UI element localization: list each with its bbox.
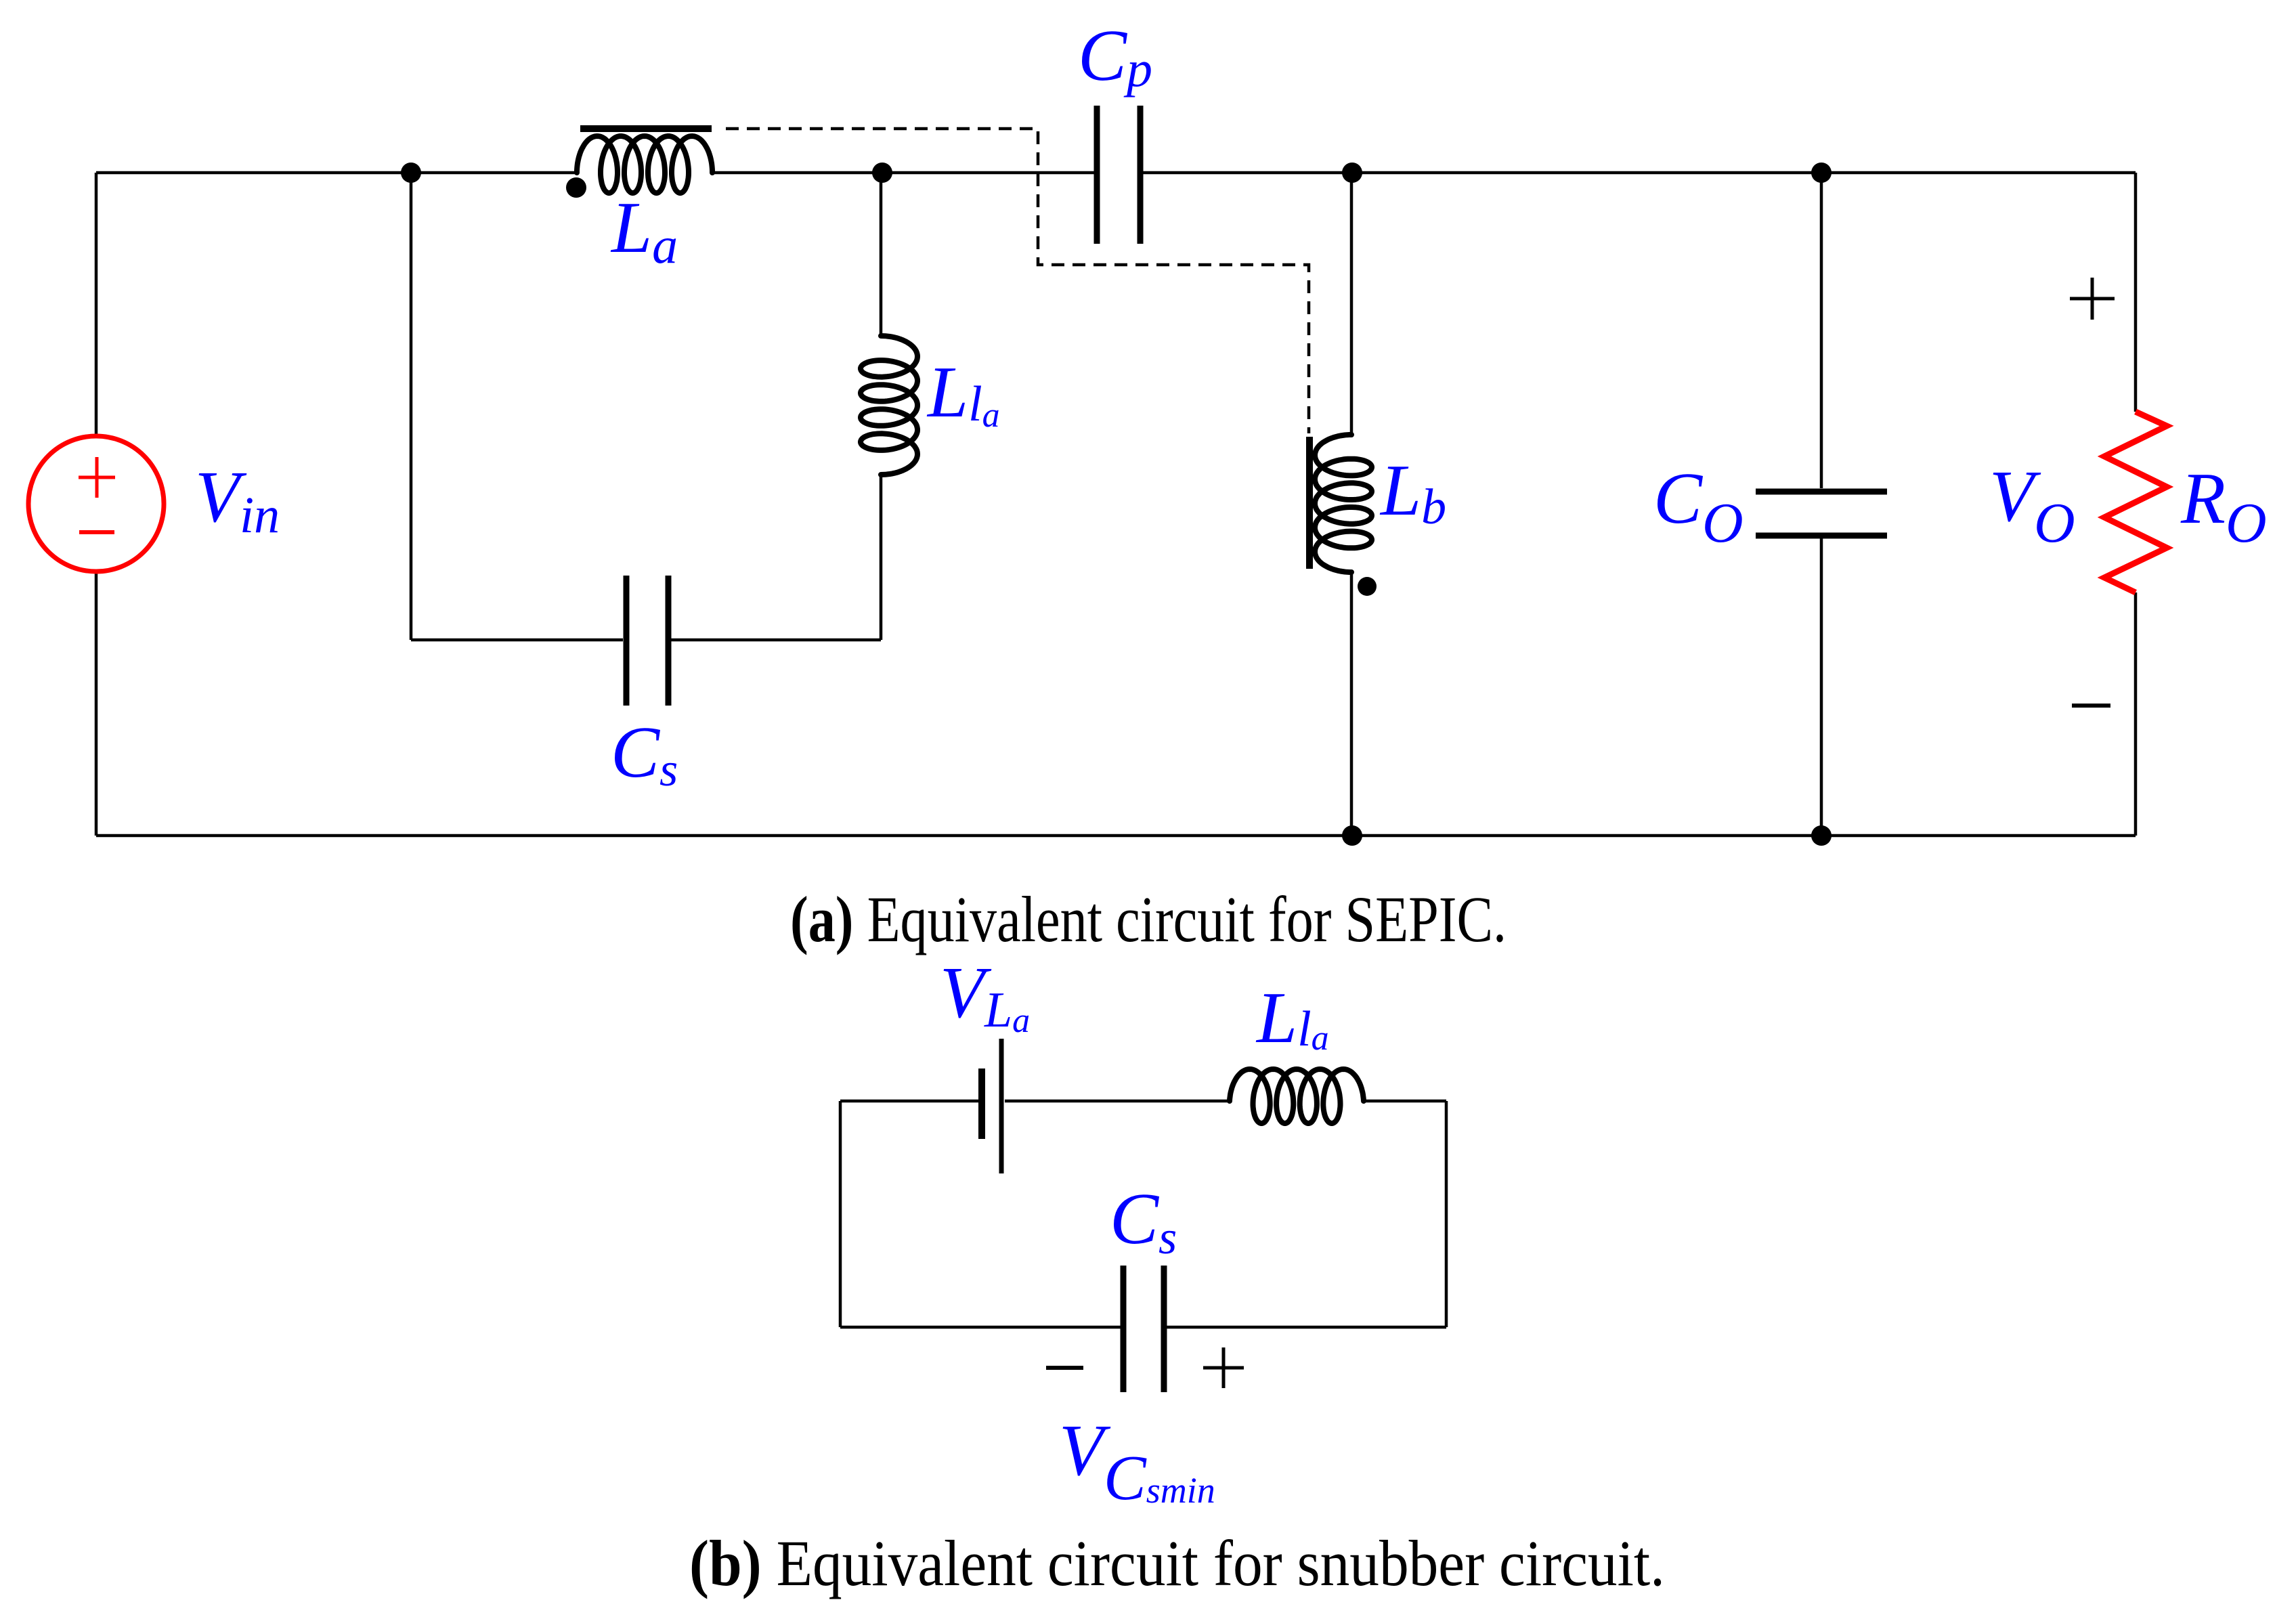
svg-text:Lb: Lb bbox=[1379, 450, 1446, 535]
svg-text:La: La bbox=[610, 188, 678, 274]
svg-text:(b) Equivalent circuit for snu: (b) Equivalent circuit for snubber circu… bbox=[689, 1527, 1665, 1599]
svg-text:RO: RO bbox=[2180, 458, 2267, 555]
svg-text:VCsmin: VCsmin bbox=[1059, 1410, 1215, 1513]
svg-text:VLa: VLa bbox=[940, 953, 1030, 1040]
svg-text:VO: VO bbox=[1989, 456, 2075, 555]
svg-text:(a) Equivalent circuit for SEP: (a) Equivalent circuit for SEPIC. bbox=[790, 883, 1507, 955]
svg-text:Cs: Cs bbox=[1110, 1179, 1177, 1264]
svg-text:Lla: Lla bbox=[926, 352, 1000, 435]
svg-text:Cs: Cs bbox=[611, 712, 678, 796]
svg-text:CO: CO bbox=[1653, 458, 1743, 555]
svg-text:Lla: Lla bbox=[1255, 978, 1329, 1058]
svg-text:Vin: Vin bbox=[195, 457, 280, 544]
svg-text:Cp: Cp bbox=[1078, 16, 1152, 98]
